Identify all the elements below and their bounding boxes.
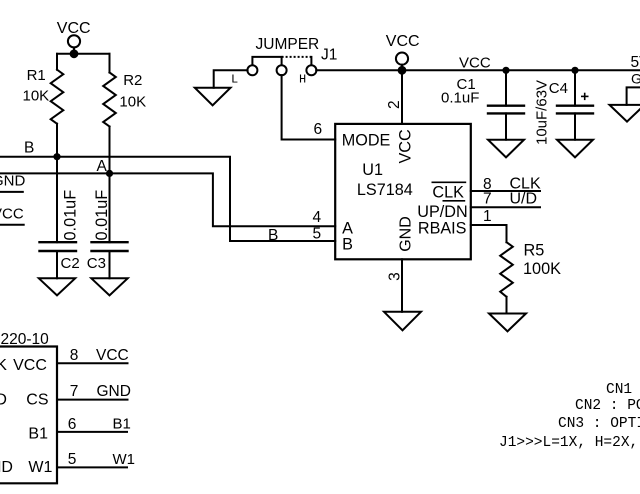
jumper J1 pin L circle: [247, 65, 257, 75]
capacitor C1: [488, 106, 524, 114]
wire GND stub (left edge): [0, 191, 23, 193]
wire jumper shunt bracket L-center: [252, 57, 281, 65]
svg-text:R2: R2: [123, 72, 142, 89]
svg-text:B1: B1: [113, 416, 131, 433]
resistor R5: [500, 242, 513, 297]
svg-text:GND: GND: [97, 383, 131, 400]
svg-text:VCC: VCC: [396, 129, 414, 163]
wire jumper dashed bracket center-H: [282, 56, 312, 58]
svg-text:5V: 5V: [631, 54, 640, 71]
svg-text:VCC: VCC: [0, 205, 24, 222]
svg-text:7: 7: [483, 191, 492, 208]
svg-text:B1: B1: [28, 425, 48, 442]
svg-text:7: 7: [70, 383, 79, 400]
ground (right edge): [610, 105, 640, 122]
svg-text:5220-10: 5220-10: [0, 331, 49, 348]
wire C4 to ground: [574, 113, 576, 139]
wire pin 7 GND stub: [57, 399, 128, 401]
svg-text:VCC: VCC: [13, 357, 47, 374]
svg-text:3: 3: [386, 272, 403, 281]
svg-text:J1>>>L=1X, H=2X, H: J1>>>L=1X, H=2X, H: [499, 435, 640, 451]
connector box (bottom-left, AD5220-10): [0, 347, 57, 484]
wire R1 top lead: [56, 54, 58, 70]
svg-text:0.01uF: 0.01uF: [61, 190, 79, 241]
svg-text:GND: GND: [0, 173, 26, 190]
svg-text:4: 4: [313, 209, 322, 226]
svg-text:GND: GND: [397, 216, 414, 252]
svg-text:W1: W1: [113, 451, 136, 468]
wire U1 pin 8 (CLK): [471, 190, 540, 192]
svg-text:VCC: VCC: [57, 20, 91, 37]
svg-text:CN3 : OPTICAL: CN3 : OPTICAL: [558, 416, 640, 432]
svg-text:B: B: [268, 227, 278, 244]
wire C2 to ground: [56, 251, 58, 278]
svg-text:GND: GND: [631, 71, 640, 87]
wire jumper L to ground: [214, 70, 248, 87]
power symbol VCC (above U1): [396, 53, 408, 67]
capacitor C3: [92, 242, 128, 251]
svg-text:100K: 100K: [523, 260, 561, 278]
svg-text:2: 2: [386, 100, 403, 109]
wire jumper H to VCC rail: [316, 69, 640, 71]
node B junction dot: [53, 153, 60, 160]
node C1 junction dot: [502, 67, 509, 74]
svg-text:8: 8: [70, 347, 79, 364]
svg-text:R5: R5: [524, 241, 545, 259]
jumper J1 pin center circle: [277, 65, 287, 75]
svg-text:C2: C2: [61, 255, 80, 272]
svg-text:10K: 10K: [23, 87, 50, 104]
wire U1 pin 2 (VCC): [401, 70, 403, 124]
svg-text:LS7184: LS7184: [357, 181, 413, 199]
label U1 pin name UP/DN (overline on DN): [417, 201, 467, 221]
wire R2 top lead: [109, 54, 111, 73]
wire C1 to ground: [505, 113, 507, 139]
wire pin 8 VCC stub: [57, 362, 128, 364]
ground (R5): [489, 314, 526, 332]
ground (U1 pin 3): [384, 312, 421, 331]
svg-text:J1: J1: [321, 47, 337, 64]
wire jumper center to U1 pin 6 (MODE): [282, 75, 336, 139]
svg-text:UP/DN: UP/DN: [417, 203, 467, 221]
wire R2 bottom / C3 column: [109, 127, 111, 243]
wire C1 top lead: [505, 70, 507, 105]
svg-text:JUMPER: JUMPER: [256, 36, 320, 53]
wire U1 pin 1 (RBAIS) to R5: [471, 225, 507, 242]
op-amp U1 LS7184 body: [335, 124, 471, 259]
wire C3 to ground: [109, 251, 111, 278]
svg-text:5: 5: [313, 226, 322, 243]
wire VCC stub (left edge): [0, 224, 24, 226]
svg-text:0.01uF: 0.01uF: [93, 190, 111, 241]
wire pin 6 B1 stub: [57, 431, 127, 433]
svg-text:C4: C4: [549, 80, 568, 97]
wire U1 pin 7 (U/D): [471, 206, 540, 208]
svg-text:CS: CS: [26, 391, 48, 408]
wire C4 top lead: [574, 70, 576, 105]
svg-text:GND: GND: [0, 459, 13, 476]
ground (C1): [488, 140, 524, 158]
wire jumper H stub: [310, 57, 312, 65]
wire VCC rail to R1/R2 tops: [57, 53, 110, 55]
ground (C2): [39, 278, 75, 295]
node C4 junction dot: [571, 67, 578, 74]
svg-text:0.1uF: 0.1uF: [441, 90, 479, 107]
svg-text:CN1 : MOTOR: CN1 : MOTOR: [606, 382, 640, 398]
jumper J1 pin H circle: [306, 65, 316, 75]
svg-text:R1: R1: [27, 67, 46, 84]
wire node B horizontal run to U1 pin 5: [0, 157, 335, 241]
svg-text:VCC: VCC: [459, 54, 491, 71]
svg-text:B: B: [342, 235, 353, 253]
svg-text:U/D: U/D: [510, 190, 538, 207]
svg-text:W1: W1: [28, 459, 52, 476]
power symbol VCC (top-left): [68, 35, 80, 50]
svg-text:MODE: MODE: [342, 131, 391, 149]
svg-text:VCC: VCC: [386, 33, 420, 50]
wire node A horizontal run to U1 pin 4: [0, 173, 335, 226]
wire right-edge GND stub: [627, 87, 640, 105]
wire R5 bottom lead: [506, 297, 508, 314]
resistor R2: [103, 73, 116, 127]
svg-text:1: 1: [483, 208, 492, 225]
svg-text:A: A: [97, 158, 108, 175]
node A junction dot: [106, 170, 113, 177]
svg-text:CN2 : POWER: CN2 : POWER: [575, 398, 640, 414]
svg-text:5: 5: [68, 451, 77, 468]
svg-text:10K: 10K: [119, 94, 146, 111]
wire U1 pin 3 (GND): [401, 259, 403, 312]
svg-text:CLK: CLK: [0, 357, 7, 374]
capacitor C2: [40, 242, 77, 251]
wire pin 5 W1 stub: [57, 466, 127, 468]
svg-text:U/D: U/D: [0, 391, 7, 408]
node VCC junction dot (above U1): [398, 66, 407, 75]
capacitor C4: [557, 106, 593, 114]
svg-text:H: H: [299, 72, 306, 86]
svg-text:6: 6: [314, 121, 323, 138]
svg-text:RBAIS: RBAIS: [418, 219, 467, 237]
svg-text:VCC: VCC: [96, 347, 129, 364]
label C4 polarity +: [581, 93, 589, 100]
svg-text:B: B: [24, 139, 34, 156]
node VCC junction dot (top-left): [70, 49, 79, 58]
svg-text:10uF/63V: 10uF/63V: [533, 80, 550, 145]
svg-text:CLK: CLK: [432, 184, 464, 202]
svg-text:U1: U1: [362, 161, 383, 179]
ground (C4): [557, 140, 593, 158]
label U1 pin name CLK (with overline): [432, 182, 467, 201]
svg-text:6: 6: [68, 416, 77, 433]
wire R1 bottom / C2 column: [56, 124, 58, 243]
ground (C3): [91, 278, 127, 295]
ground (jumper L): [195, 88, 231, 106]
svg-text:C3: C3: [87, 255, 106, 272]
resistor R1: [51, 70, 64, 124]
svg-text:L: L: [231, 72, 238, 86]
